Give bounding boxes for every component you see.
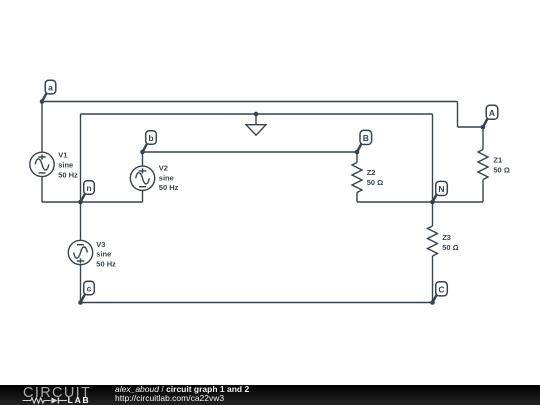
svg-text:Z3: Z3 [442,233,451,242]
junction ground tap [254,112,259,117]
node label b [143,131,157,152]
svg-text:50 Hz: 50 Hz [96,259,116,268]
wire V1 to node n [42,201,81,203]
node label B [357,130,372,152]
wire node n to V3 top [80,202,82,240]
node label C [433,282,448,303]
svg-text:Z2: Z2 [367,168,376,177]
svg-text:c: c [87,284,92,294]
label Z1 value [493,156,509,175]
ground stub [255,114,257,125]
wire net a: right vertical drop [457,102,459,128]
node label c [81,281,95,302]
voltage source V1 [30,152,54,176]
wire net n: horizontal to right [81,113,433,115]
svg-text:50 Ω: 50 Ω [367,178,383,187]
resistor Z3 [428,226,438,256]
wire node b to node B [143,151,358,153]
wire net a: to node A [458,126,484,128]
junction node B [355,150,360,155]
junction node a [40,99,45,104]
resistor Z2 [352,163,362,193]
node label A [483,105,498,127]
voltage source V2 [130,166,154,190]
svg-text:V1: V1 [58,151,67,160]
junction node A [481,125,486,130]
svg-text:A: A [489,108,495,118]
svg-text:N: N [438,184,444,194]
wire node c to node C (bottom horizontal) [81,302,433,304]
wire node A to Z1 top [482,127,484,150]
svg-text:B: B [363,133,369,143]
node label N [433,181,448,202]
svg-text:sine: sine [58,161,73,170]
resistor Z1 [478,150,488,180]
svg-text:50 Hz: 50 Hz [159,183,179,192]
label V1 value [58,151,78,180]
junction node N [430,200,435,205]
CircuitLab logo [0,385,110,405]
junction node c [78,300,83,305]
wire V2 bottom lead [142,191,144,203]
svg-text:a: a [48,83,53,93]
wire net a: top horizontal [42,101,458,103]
junction node C [430,300,435,305]
wire node a to V1 top [41,102,43,153]
wire Z3 bottom to node C [432,256,434,303]
svg-text:V3: V3 [96,240,105,249]
label V3 value [96,240,116,269]
footer bar [0,385,540,405]
svg-text:sine: sine [96,250,111,259]
wire node B to Z2 top [356,152,358,163]
label Z2 value [367,168,383,187]
wire node N to Z3 top [432,202,434,226]
svg-text:n: n [86,183,91,193]
svg-text:50 Ω: 50 Ω [442,243,458,252]
svg-text:C: C [438,285,444,295]
wire V2 to node n [81,201,143,203]
svg-text:Z1: Z1 [493,156,502,165]
junction node b [140,150,145,155]
wire V1 bottom lead [41,177,43,202]
voltage source V3 [68,240,92,264]
wire node b to V2 top [142,152,144,166]
wire net n: vertical up from n [80,114,82,202]
node label n [81,181,95,202]
wire Z1 to node N [433,201,484,203]
wire Z2 to node N [357,201,433,203]
svg-text:50 Hz: 50 Hz [58,170,78,179]
wire net n: right vertical down to N [432,114,434,202]
label V2 value [159,164,179,193]
junction node n [78,200,83,205]
ground [246,125,266,136]
footer credit text [115,385,249,404]
label Z3 value [442,233,458,252]
svg-text:LAB: LAB [68,395,91,405]
svg-text:V2: V2 [159,164,168,173]
wire Z1 bottom lead [482,180,484,203]
node label a [42,80,56,101]
svg-text:b: b [148,133,153,143]
wire V3 bottom to node c [80,265,82,303]
wire Z2 bottom lead [356,193,358,203]
svg-text:sine: sine [159,173,174,182]
svg-text:50 Ω: 50 Ω [493,166,509,175]
